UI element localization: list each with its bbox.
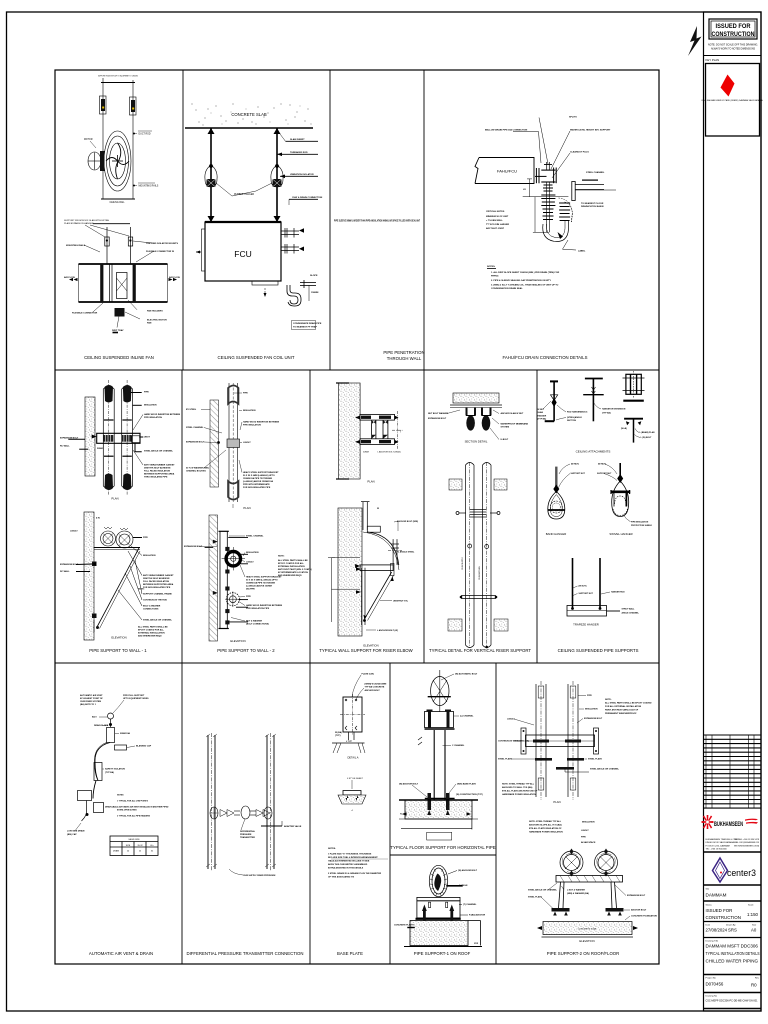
svg-text:L (BEAM) PLAN: L (BEAM) PLAN	[640, 431, 656, 434]
svg-text:(W) ANCHOR BOLT: (W) ANCHOR BOLT	[458, 869, 478, 872]
svg-text:(W+B): (W+B)	[621, 428, 627, 430]
svg-text:STEEL ANGLE OR CHANNEL: STEEL ANGLE OR CHANNEL	[590, 768, 620, 771]
svg-text:SUPPORT NUT: SUPPORT NUT	[597, 473, 612, 475]
svg-text:HANGER ROD: HANGER ROD	[611, 591, 625, 594]
svg-text:PIPE INSULATION: PIPE INSULATION	[631, 521, 649, 524]
svg-text:DETAIL A: DETAIL A	[347, 756, 358, 760]
svg-text:HANGER W EXPANSION: HANGER W EXPANSION	[602, 408, 626, 411]
svg-text:PIPE FULL SUPPORT: PIPE FULL SUPPORT	[123, 695, 145, 697]
svg-text:ISSUED FOR: ISSUED FOR	[716, 23, 751, 30]
svg-text:ROD HANGER(BOLT): ROD HANGER(BOLT)	[567, 411, 588, 414]
svg-text:CEILING RAIL: CEILING RAIL	[110, 201, 126, 204]
svg-text:TYPICAL FLOOR SUPPORT FOR HORI: TYPICAL FLOOR SUPPORT FOR HORIZONTAL PIP…	[390, 845, 495, 850]
svg-text:FAN: FAN	[147, 322, 152, 325]
svg-text:CSC-MEPF-DDC306-PC-DE-ME-CHW-S: CSC-MEPF-DDC306-PC-DE-ME-CHW-SN-001	[706, 999, 759, 1003]
svg-text:CEILING SUSPENDED PIPE SUPPORT: CEILING SUSPENDED PIPE SUPPORTS	[558, 648, 639, 653]
svg-text:PIPE SUPPORT-2 ON ROOF/FLOOR: PIPE SUPPORT-2 ON ROOF/FLOOR	[547, 951, 620, 956]
svg-text:PLAN: PLAN	[553, 800, 560, 804]
svg-text:FOR NON INSULATED PIPE: FOR NON INSULATED PIPE	[243, 486, 271, 489]
svg-text:SUPPORT NUT: SUPPORT NUT	[571, 473, 586, 475]
svg-text:PIPE INSULATION: PIPE INSULATION	[243, 424, 261, 427]
svg-text:W: W	[377, 508, 379, 510]
svg-text:PIPE SLEEVE 50MM LARGER THAN P: PIPE SLEEVE 50MM LARGER THAN PIPE+INSULA…	[334, 220, 420, 223]
svg-text:ANCHOR BOLT (W/E): ANCHOR BOLT (W/E)	[397, 520, 418, 523]
svg-text:BAND HANGER: BAND HANGER	[546, 532, 567, 536]
svg-text:L ANGLE STEEL: L ANGLE STEEL	[398, 551, 415, 554]
svg-text:SPLITS: SPLITS	[569, 117, 577, 119]
svg-text:NOTES:: NOTES:	[328, 848, 336, 850]
svg-text:PIPING: PIPING	[491, 276, 499, 278]
svg-text:ELECTRIC MOTOR: ELECTRIC MOTOR	[147, 320, 167, 322]
svg-text:DRIP TRAY: DRIP TRAY	[112, 329, 124, 332]
svg-text:STEEL PLATE: STEEL PLATE	[588, 758, 603, 761]
svg-text:CONDENSATE DRAIN PIPE: CONDENSATE DRAIN PIPE	[293, 322, 322, 325]
svg-text:PIPE INSULATION: PIPE INSULATION	[144, 416, 162, 419]
svg-text:32: 32	[151, 850, 154, 852]
svg-text:PLATE 6 (W): PLATE 6 (W)	[362, 673, 375, 676]
svg-text:LABEL: LABEL	[578, 250, 586, 253]
svg-text:SLAB: SLAB	[538, 411, 544, 414]
svg-text:TEL/FAX: +966 13 834 5678: TEL/FAX: +966 13 834 5678	[734, 838, 759, 841]
svg-text:EMAIL: INFO@BUKHAMSEEN.COM: EMAIL: INFO@BUKHAMSEEN.COM	[734, 841, 759, 844]
svg-text:1:150: 1:150	[747, 912, 759, 917]
svg-text:PLAN: PLAN	[243, 506, 250, 510]
svg-text:ALVAR SPACE: ALVAR SPACE	[581, 841, 596, 844]
svg-text:MOUNTING RAILS: MOUNTING RAILS	[139, 185, 159, 188]
svg-text:2 AUTOMATIC AIR VENT INSTALLED: 2 AUTOMATIC AIR VENT INSTALLED IN ANOTHE…	[117, 806, 169, 809]
svg-text:BTS ALL PLATE ANCHORS USE OF: BTS ALL PLATE ANCHORS USE OF	[502, 790, 538, 793]
svg-text:ELEVATION: ELEVATION	[111, 636, 126, 640]
svg-text:AUTOMATIC AIR VENT: AUTOMATIC AIR VENT	[80, 694, 103, 697]
svg-text:STRUT WALL: STRUT WALL	[622, 608, 636, 611]
svg-text:WATERPROOF MEMBRANE: WATERPROOF MEMBRANE	[501, 423, 529, 426]
svg-text:CEILING SUSPENDED INLINE FAN: CEILING SUSPENDED INLINE FAN	[84, 355, 154, 360]
svg-text:PIPE SUPPORT TO WALL - 2: PIPE SUPPORT TO WALL - 2	[217, 648, 275, 653]
svg-text:FLEXIBLE CONNECTOR: FLEXIBLE CONNECTOR	[72, 313, 98, 315]
svg-text:RC WALL: RC WALL	[60, 445, 70, 448]
svg-text:TO NEAREST FLOOR: TO NEAREST FLOOR	[581, 202, 604, 205]
svg-text:PIPE: PIPE	[246, 596, 251, 598]
svg-text:HEAVY STEEL SUPPORT BRACKET: HEAVY STEEL SUPPORT BRACKET	[243, 471, 279, 474]
svg-text:C CHANNEL: C CHANNEL	[452, 744, 465, 747]
svg-text:BUKHAMSEEN: BUKHAMSEEN	[714, 821, 743, 828]
svg-text:TEL: +966 13 8000000: TEL: +966 13 8000000	[706, 849, 728, 851]
svg-text:3. (MIN) & SLLY T (STEAM) CO: 3. (MIN) & SLLY T (STEAM) COL. TRAM SEAL…	[491, 284, 559, 287]
svg-text:50MM: 50MM	[363, 452, 369, 454]
svg-text:+1: +1	[351, 810, 354, 812]
svg-text:PIPE: PIPE	[587, 695, 592, 697]
svg-text:FAHU/FCU: FAHU/FCU	[497, 169, 517, 174]
svg-text:SAFETY ISOLATION: SAFETY ISOLATION	[105, 768, 125, 771]
svg-text:AND WHEREVER REQD: AND WHEREVER REQD	[138, 635, 162, 638]
svg-text:(TYP BA): (TYP BA)	[602, 412, 611, 415]
svg-text:THROUGH WALL: THROUGH WALL	[387, 356, 422, 361]
svg-text:CHW SUPPLY RISER PIPEWORK: CHW SUPPLY RISER PIPEWORK	[243, 875, 276, 877]
svg-text:EXTERNAL INSTALLATION: EXTERNAL INSTALLATION	[138, 632, 165, 635]
svg-text:(W/E) BASE PLATE: (W/E) BASE PLATE	[457, 783, 477, 786]
svg-text:EPOXY COATED FOR ALL: EPOXY COATED FOR ALL	[138, 629, 165, 632]
svg-text:(SHIM) W 25X25X3MM: (SHIM) W 25X25X3MM	[365, 684, 387, 686]
svg-text:EXPANSION BOLT: EXPANSION BOLT	[584, 717, 603, 720]
svg-text:AUTOMATIC AIR VENT & DRAIN: AUTOMATIC AIR VENT & DRAIN	[89, 951, 153, 956]
svg-text:FCU: FCU	[234, 249, 251, 259]
svg-text:BASE PLATE: BASE PLATE	[337, 951, 363, 956]
svg-text:RUBBER HANGER: RUBBER HANGER	[234, 193, 254, 196]
svg-text:SUPPORT CHANNEL FRAME: SUPPORT CHANNEL FRAME	[143, 593, 172, 596]
svg-text:150MM DIA PIPE 75X75X6MM: 150MM DIA PIPE 75X75X6MM	[243, 477, 272, 480]
svg-text:CMP RBD ISOLATOR MOUNTS: CMP RBD ISOLATOR MOUNTS	[146, 242, 179, 245]
svg-text:HANGER: HANGER	[538, 415, 547, 418]
svg-text:BY STEEL: BY STEEL	[186, 409, 197, 411]
svg-text:CHW RISER SYSTEM: CHW RISER SYSTEM	[80, 701, 101, 703]
svg-text:3MM THK SELF ADHESIVE: 3MM THK SELF ADHESIVE	[144, 467, 171, 470]
svg-text:SWIVEL HANGER: SWIVEL HANGER	[609, 532, 632, 536]
svg-text:CONCRETE SLAB: CONCRETE SLAB	[231, 112, 267, 117]
svg-text:4 IN: 4 IN	[96, 517, 100, 520]
svg-text:CHW & DRAIN CONNECTION: CHW & DRAIN CONNECTION	[292, 196, 323, 199]
svg-text:ADDS THIS CHEOMETRIC ASSEMBLED: ADDS THIS CHEOMETRIC ASSEMBLED	[328, 863, 368, 866]
svg-text:50 X 50 X 6MM (L/ANGLE) UPTO: 50 X 50 X 6MM (L/ANGLE) UPTO	[243, 474, 275, 477]
svg-text:INSULATION: INSULATION	[246, 551, 259, 554]
svg-text:SYSTEM: SYSTEM	[501, 427, 510, 429]
svg-text:(L ANGLE) ABOVE 150MM DIA: (L ANGLE) ABOVE 150MM DIA	[243, 480, 273, 483]
svg-text:PIPE SUPPORT TO WALL - 1: PIPE SUPPORT TO WALL - 1	[89, 648, 147, 653]
svg-text:Project No: Project No	[706, 977, 717, 980]
svg-text:PAINT ANTI RUST (MIN) COAT OF: PAINT ANTI RUST (MIN) COAT OF	[605, 709, 639, 712]
svg-text:AND WHEREVER REQD: AND WHEREVER REQD	[278, 574, 302, 577]
svg-text:NOTE: STEEL THREAD TYP ALL: NOTE: STEEL THREAD TYP ALL	[529, 820, 562, 823]
svg-text:TYP BA CONCRETE: TYP BA CONCRETE	[365, 686, 385, 689]
svg-text:UNISTRUT STL: UNISTRUT STL	[393, 601, 409, 603]
svg-text:Status: Status	[706, 904, 713, 907]
svg-text:STEEL CHANNEL: STEEL CHANNEL	[586, 171, 605, 174]
svg-text:CHANNEL BOLTING: CHANNEL BOLTING	[186, 470, 206, 473]
svg-text:NUT BOLT WASHER: NUT BOLT WASHER	[428, 412, 449, 415]
svg-text:PIPE: PIPE	[581, 837, 586, 839]
svg-text:ANCHOR BOLT: ANCHOR BOLT	[631, 909, 647, 912]
svg-text:NOTES: NOTES	[117, 795, 124, 797]
svg-text:BOLT & WASHER: BOLT & WASHER	[143, 605, 161, 608]
svg-text:THREADED ROD: THREADED ROD	[290, 151, 308, 154]
svg-text:NOTE:: NOTE:	[605, 699, 612, 701]
svg-text:DIFFERENTIAL PRESSURE TRANSMIT: DIFFERENTIAL PRESSURE TRANSMITTER CONNEC…	[187, 951, 304, 956]
svg-text:50MM: 50MM	[97, 448, 103, 450]
svg-text:(TYP BA): (TYP BA)	[105, 771, 114, 774]
svg-text:U-BOLT: U-BOLT	[581, 830, 589, 832]
svg-text:(W) ANCHOR BOLT: (W) ANCHOR BOLT	[399, 783, 419, 786]
svg-text:VALVE SIZE: VALVE SIZE	[128, 838, 140, 841]
svg-text:ALL STEEL PARTS SHALL BE EPOXY: ALL STEEL PARTS SHALL BE EPOXY COATED	[605, 702, 652, 705]
svg-text:NOTE: STEEL THREAD TYP ALL: NOTE: STEEL THREAD TYP ALL	[502, 783, 535, 786]
svg-text:NOTES:: NOTES:	[487, 266, 496, 268]
svg-text:Date: Date	[706, 924, 711, 927]
svg-text:PIPE: PIPE	[144, 392, 149, 394]
svg-text:H1: H1	[523, 189, 527, 191]
svg-text:ANCHOR BOLT: ANCHOR BOLT	[365, 689, 381, 692]
svg-text:STEEL PLATE: STEEL PLATE	[528, 896, 543, 899]
svg-text:SRS: SRS	[728, 928, 737, 933]
svg-text:MOUNTING RAILS: MOUNTING RAILS	[66, 244, 86, 247]
svg-text:Scale: Scale	[748, 905, 754, 907]
svg-text:ELEVATION: ELEVATION	[230, 639, 245, 643]
svg-text:BLANKED CAP: BLANKED CAP	[136, 745, 152, 748]
svg-text:CONSTRUCTION: CONSTRUCTION	[706, 915, 741, 920]
svg-text:INSULATION: INSULATION	[582, 821, 595, 824]
svg-text:SUPPORT FROM ROOF SLAB WITH EX: SUPPORT FROM ROOF SLAB WITH EXTRA	[64, 219, 109, 222]
svg-text:EXTRA OPEN DUTIES: EXTRA OPEN DUTIES	[117, 809, 137, 812]
svg-text:AT HIGHEST POINT OF: AT HIGHEST POINT OF	[80, 697, 104, 700]
svg-text:ANGLE CHANNEL: ANGLE CHANNEL	[622, 612, 640, 615]
svg-text:L ANCHOR BOLT (W): L ANCHOR BOLT (W)	[377, 629, 398, 632]
svg-text:150MM: 150MM	[311, 292, 318, 294]
svg-text:VIBRATION ISOLATOR: VIBRATION ISOLATOR	[290, 173, 314, 176]
svg-text:UNOT: UNOT	[144, 437, 151, 439]
svg-text:PLAN: PLAN	[111, 497, 118, 501]
svg-text:MINIMUM 50 OF UNIT: MINIMUM 50 OF UNIT	[486, 216, 509, 218]
svg-text:P.O.BOX 1234, DAMMAM: P.O.BOX 1234, DAMMAM	[706, 844, 730, 847]
svg-text:27/08/2024: 27/08/2024	[706, 928, 728, 933]
svg-text:EXTERNAL INSTALLATION: EXTERNAL INSTALLATION	[278, 565, 305, 568]
svg-text:Rev: Rev	[755, 978, 760, 980]
svg-text:PIPE WITH INTERMEDIATE: PIPE WITH INTERMEDIATE	[243, 483, 270, 486]
svg-text:B4-V: B4-V	[92, 716, 97, 719]
svg-text:LOW SIDE DRAIN: LOW SIDE DRAIN	[67, 830, 85, 833]
svg-text:NUT & WASHER: NUT & WASHER	[246, 620, 263, 623]
svg-text:STEEL ANGLE OR CHANNEL: STEEL ANGLE OR CHANNEL	[144, 450, 174, 453]
svg-text:40+: 40+	[150, 845, 154, 847]
svg-text:20: 20	[127, 850, 130, 852]
svg-text:(W) AUTOMATIC BOLT: (W) AUTOMATIC BOLT	[455, 673, 478, 676]
svg-text:RC WALL: RC WALL	[60, 570, 70, 573]
svg-text:TRAPEZE HANGER: TRAPEZE HANGER	[573, 623, 599, 627]
svg-text:(W NUT): (W NUT)	[598, 464, 606, 466]
svg-text:1 TYPICAL FOR ALL CHW POINTS: 1 TYPICAL FOR ALL CHW POINTS	[117, 800, 149, 803]
svg-text:HEAVY STEEL SUPPORT BRACKET: HEAVY STEEL SUPPORT BRACKET	[246, 576, 282, 579]
svg-text:XXX: XXX	[474, 943, 479, 945]
svg-text:PLAN: PLAN	[367, 480, 374, 484]
svg-text:+ T%OBS WELL: + T%OBS WELL	[486, 220, 503, 222]
svg-text:PERMANENT WEATHERPROOF: PERMANENT WEATHERPROOF	[605, 712, 637, 715]
svg-text:FULL FACED INSULATION: FULL FACED INSULATION	[143, 580, 170, 583]
svg-text:(BA) NOTE TO 1: (BA) NOTE TO 1	[80, 703, 97, 706]
svg-text:NOTE:: NOTE:	[278, 556, 285, 558]
svg-text:DIFFERENTIAL: DIFFERENTIAL	[240, 830, 256, 833]
svg-text:(TYP BA): (TYP BA)	[538, 417, 547, 420]
svg-text:CEILING SUSPENDED FAN COIL UNI: CEILING SUSPENDED FAN COIL UNIT	[218, 355, 295, 360]
svg-text:(L) CHANNEL: (L) CHANNEL	[460, 715, 474, 718]
svg-text:AT INTERMEDIATE LOCATION: AT INTERMEDIATE LOCATION	[278, 571, 308, 574]
svg-text:U-BOLT: U-BOLT	[507, 719, 515, 721]
svg-text:EXPANSION BOLT: EXPANSION BOLT	[186, 441, 205, 444]
svg-text:FAN HOLDERS: FAN HOLDERS	[147, 310, 163, 313]
svg-text:ELEVATION: ELEVATION	[579, 939, 594, 943]
svg-text:KING SALMAN ENERGY PARK (SPARK: KING SALMAN ENERGY PARK (SPARK) DAMMAM S…	[701, 99, 763, 102]
svg-text:(TYP): (TYP)	[335, 735, 341, 737]
svg-text:2 STEEL GRADE 50 & GREASE PLUS: 2 STEEL GRADE 50 & GREASE PLUS THE DIAME…	[328, 872, 382, 875]
svg-text:CONSTRUCTION: CONSTRUCTION	[712, 31, 755, 38]
svg-text:CLEANOUT PLUG: CLEANOUT PLUG	[570, 151, 589, 154]
svg-text:DUCT ROD: DUCT ROD	[139, 134, 151, 136]
svg-text:DRAIN/CATCH BASIN: DRAIN/CATCH BASIN	[581, 205, 604, 208]
svg-text:(MIN) & WASHER (BA): (MIN) & WASHER (BA)	[567, 892, 589, 895]
svg-text:EXTRA ASSISTED IN THIS DETAILS: EXTRA ASSISTED IN THIS DETAILS	[328, 867, 364, 870]
svg-text:OF THIS ASSOCIATED ITS: OF THIS ASSOCIATED ITS	[328, 876, 355, 879]
svg-text:UPTO EQUIPMENT SIDES: UPTO EQUIPMENT SIDES	[123, 698, 149, 700]
svg-text:KEY PLAN: KEY PLAN	[706, 58, 720, 62]
svg-text:W NUT: W NUT	[538, 409, 545, 411]
svg-text:ISSUED FOR: ISSUED FOR	[706, 908, 733, 913]
svg-text:SIZE: SIZE	[126, 845, 131, 847]
svg-text:150MM DIA PIPE 75X75X6MM: 150MM DIA PIPE 75X75X6MM	[246, 582, 275, 585]
svg-text:AIR TIGHT JOINT: AIR TIGHT JOINT	[486, 227, 505, 230]
svg-text:D070456: D070456	[706, 982, 724, 987]
svg-text:ALL STEEL PARTS SHALL BE: ALL STEEL PARTS SHALL BE	[138, 626, 168, 629]
svg-text:ADAPTER VALVE: ADAPTER VALVE	[284, 825, 302, 828]
svg-text:center3: center3	[727, 868, 756, 879]
svg-text:BETWEEN SUPPORTED AREA: BETWEEN SUPPORTED AREA	[144, 473, 175, 476]
svg-text:CRITICAL NOTES: CRITICAL NOTES	[486, 210, 505, 213]
svg-text:EXPANSION BOLT: EXPANSION BOLT	[627, 894, 646, 897]
svg-text:ALL STEEL PARTS SHALL BE: ALL STEEL PARTS SHALL BE	[278, 559, 308, 562]
svg-text:20-32: 20-32	[137, 845, 143, 847]
svg-text:SLOPE: SLOPE	[310, 275, 318, 277]
svg-text:WATER LEVEL HEIGHT 80% SUPPORT: WATER LEVEL HEIGHT 80% SUPPORT	[570, 129, 611, 132]
svg-text:(STEEL)ANGLE: (STEEL)ANGLE	[567, 416, 582, 419]
svg-text:PIPE: PIPE	[143, 537, 148, 539]
svg-text:INSULATION: INSULATION	[243, 409, 256, 412]
svg-text:Drawing Title: Drawing Title	[706, 940, 719, 943]
svg-text:A0: A0	[751, 928, 757, 933]
svg-text:L (W) BOLT: L (W) BOLT	[641, 437, 653, 439]
svg-text:2. PIPE & SLEEVE SEALING GAP: 2. PIPE & SLEEVE SEALING GAP PENETRATION…	[491, 279, 552, 282]
svg-text:ANCHORS SLOPE ALL IT IS (BA): ANCHORS SLOPE ALL IT IS (BA)	[529, 824, 562, 827]
svg-text:(L ANGLE) ABOVE 150MM: (L ANGLE) ABOVE 150MM	[246, 585, 272, 588]
svg-text:STEEL PLATE: STEEL PLATE	[498, 758, 513, 761]
svg-text:CONTINUOUS THK ROD: CONTINUOUS THK ROD	[143, 600, 168, 602]
svg-text:AIR FLOW: AIR FLOW	[64, 276, 76, 279]
svg-text:CONCRETE PLINTH: CONCRETE PLINTH	[394, 925, 414, 927]
svg-text:WEB: WWW.BUKHAMSEEN.COM.SA: WEB: WWW.BUKHAMSEEN.COM.SA	[734, 844, 760, 847]
svg-text:DRAIN: DRAIN	[113, 849, 120, 852]
svg-text:EXPANSION BOLT: EXPANSION BOLT	[428, 417, 447, 420]
svg-text:L ANCHOR BOLT (W&B): L ANCHOR BOLT (W&B)	[378, 451, 401, 454]
svg-text:U-BOLT: U-BOLT	[246, 562, 254, 564]
svg-text:3MM THK SELF ADHESIVE: 3MM THK SELF ADHESIVE	[143, 577, 170, 580]
svg-text:PLAIN EXPANSION HANGER: PLAIN EXPANSION HANGER	[64, 222, 94, 225]
svg-text:R (BA) ANCHOR: R (BA) ANCHOR	[469, 914, 486, 917]
svg-text:STEEL CHANNEL: STEEL CHANNEL	[186, 426, 204, 429]
svg-text:CONNECTIONS: CONNECTIONS	[143, 609, 159, 611]
svg-text:50 X 50 X 6MM (L ANGLE) UPTO: 50 X 50 X 6MM (L ANGLE) UPTO	[246, 579, 278, 582]
svg-text:HARD WOOD INSERTION BETWEEN: HARD WOOD INSERTION BETWEEN	[243, 421, 280, 424]
svg-text:NOTE: DO NOT SCALE OFF THIS DR: NOTE: DO NOT SCALE OFF THIS DRAWING.	[708, 43, 758, 47]
svg-text:FOR NON INSULATED PIPE: FOR NON INSULATED PIPE	[143, 586, 171, 589]
svg-text:(BM) CAP: (BM) CAP	[67, 833, 77, 836]
svg-text:HARDWARE POWER INSULATION: HARDWARE POWER INSULATION	[502, 793, 536, 796]
svg-text:PIPE PENETRATION: PIPE PENETRATION	[383, 350, 424, 355]
svg-text:}: }	[400, 430, 401, 433]
svg-text:ANTI RUST PAINT (MIN. 2 COATS): ANTI RUST PAINT (MIN. 2 COATS)	[278, 568, 312, 571]
svg-text:20MM DIA: 20MM DIA	[120, 732, 130, 735]
svg-text:TYPICAL INSTALLATION DETAILS: TYPICAL INSTALLATION DETAILS	[706, 951, 760, 956]
svg-text:U-BOLT: U-BOLT	[243, 442, 251, 444]
svg-text:ELEVATION: ELEVATION	[363, 644, 378, 648]
svg-text:HARD WOOD INSERTION BETWEEN: HARD WOOD INSERTION BETWEEN	[144, 413, 181, 416]
svg-text:TO NEAREST FF TRAP: TO NEAREST FF TRAP	[293, 326, 317, 329]
svg-text:HARD WOOD INSERTION BETWEEN: HARD WOOD INSERTION BETWEEN	[246, 604, 283, 607]
svg-text:INCLUDE SIZE TUBL 4 INTERIOR A: INCLUDE SIZE TUBL 4 INTERIOR ARRANGEMENT	[328, 856, 378, 859]
svg-text:1 PLATE SIZE "S" THICKNESS. TH: 1 PLATE SIZE "S" THICKNESS. THICKNESS	[328, 853, 372, 856]
svg-text:ALWAYS WORK TO NOTED DIMENSION: ALWAYS WORK TO NOTED DIMENSIONS	[711, 47, 755, 51]
svg-text:CONCRETE SLAB: CONCRETE SLAB	[578, 928, 597, 931]
svg-text:FULL FACED INSULATION: FULL FACED INSULATION	[144, 470, 171, 473]
svg-text:MOTOR: MOTOR	[84, 139, 93, 141]
svg-text:SECTION DETAIL: SECTION DETAIL	[465, 440, 488, 444]
svg-text:TRANSMITTER: TRANSMITTER	[240, 836, 255, 839]
svg-text:(W NUT): (W NUT)	[571, 464, 579, 466]
svg-text:FOR ALL EXTERNAL INSTALLATION: FOR ALL EXTERNAL INSTALLATION	[605, 705, 642, 708]
svg-text:SUPPORT RODS EXTN UP TO EQUIPM: SUPPORT RODS EXTN UP TO EQUIPMENT TO CEI…	[98, 76, 138, 78]
svg-text:INSULATION: INSULATION	[585, 708, 598, 711]
svg-text:1. ALL DRIP SLOPE SHEET 100/: 1. ALL DRIP SLOPE SHEET 100/200 (MIN.) P…	[491, 271, 560, 274]
svg-text:TYPICAL DETAIL FOR VERTICAL RI: TYPICAL DETAIL FOR VERTICAL RISER SUPPOR…	[429, 648, 531, 653]
svg-text:PIPE: PIPE	[243, 393, 248, 395]
svg-text:L TYP: L TYP	[346, 741, 352, 743]
svg-text:W (BA): W (BA)	[335, 731, 342, 734]
svg-text:DAMMAM MSFT DDC306: DAMMAM MSFT DDC306	[706, 944, 759, 949]
svg-text:L NUT & WASHER: L NUT & WASHER	[567, 889, 585, 892]
svg-text:Site: Site	[706, 888, 711, 891]
svg-text:ANCHORS TO WALL IT IS (BA): ANCHORS TO WALL IT IS (BA)	[502, 786, 533, 789]
svg-text:PRESSURE: PRESSURE	[240, 834, 252, 836]
svg-text:CEILING ATTACHMENTS: CEILING ATTACHMENTS	[576, 450, 611, 454]
svg-text:SUPPORT NUT: SUPPORT NUT	[579, 593, 594, 595]
svg-text:PROTECTION SHIELD: PROTECTION SHIELD	[631, 525, 653, 527]
svg-text:T*T ECS DIM LARGER: T*T ECS DIM LARGER	[486, 223, 510, 226]
svg-text:CHILLED WATER PIPING: CHILLED WATER PIPING	[706, 959, 759, 964]
svg-text:SLAB INSERT: SLAB INSERT	[290, 138, 305, 141]
svg-text:CHW RETURN: CHW RETURN	[479, 566, 481, 580]
svg-text:STEEL CHANNEL: STEEL CHANNEL	[246, 535, 264, 538]
svg-text:PIPE INSULATION PIPE: PIPE INSULATION PIPE	[246, 607, 270, 610]
svg-text:FAHU/FCU DRAIN CONNECTION DETA: FAHU/FCU DRAIN CONNECTION DETAILS	[503, 355, 588, 360]
svg-text:EPOXY COATED FOR ALL: EPOXY COATED FOR ALL	[278, 562, 305, 565]
svg-text:BETWEEN SUPPORTED AREA: BETWEEN SUPPORTED AREA	[143, 583, 174, 586]
svg-text:ANTI VIBRA RUBBER GASKET: ANTI VIBRA RUBBER GASKET	[143, 574, 174, 577]
svg-text:Drawn By: Drawn By	[726, 924, 736, 927]
svg-text:Drawing No: Drawing No	[706, 994, 718, 997]
svg-text:R0: R0	[751, 983, 757, 988]
svg-text:STEEL ANGLE OR CHANNEL: STEEL ANGLE OR CHANNEL	[528, 889, 558, 892]
svg-text:STEEL ANGLE OR CHANNEL: STEEL ANGLE OR CHANNEL	[143, 619, 173, 622]
svg-text:PIPE SUPPORT-1 ON ROOF: PIPE SUPPORT-1 ON ROOF	[414, 951, 471, 956]
svg-text:3 TYPICAL FOR ALL PIPE HEADERS: 3 TYPICAL FOR ALL PIPE HEADERS	[117, 815, 151, 818]
svg-text:(W) CONSTRUCTION (TYP): (W) CONSTRUCTION (TYP)	[456, 794, 483, 796]
svg-text:CONDENSATION DRAIN SEAL: CONDENSATION DRAIN SEAL	[491, 287, 523, 290]
svg-text:SECTION: SECTION	[567, 420, 576, 422]
svg-text:DAMMAM: DAMMAM	[706, 893, 727, 898]
svg-text:KINGDOM OF SAUDI ARABIA: KINGDOM OF SAUDI ARABIA	[706, 841, 735, 844]
svg-text:(BOLT CONNECTIONS): (BOLT CONNECTIONS)	[246, 624, 269, 626]
svg-text:TYPICAL WALL SUPPORT FOR RISER: TYPICAL WALL SUPPORT FOR RISER ELBOW	[319, 648, 413, 653]
svg-text:FLEXIBLE CONNECTOR W: FLEXIBLE CONNECTOR W	[146, 251, 175, 253]
svg-text:ITALIA AS INTERESTED INCLUDE I: ITALIA AS INTERESTED INCLUDE IT SIDE	[328, 860, 370, 863]
svg-text:ANCHOR SLAB W NUT: ANCHOR SLAB W NUT	[501, 412, 524, 415]
svg-text:CHW SUPPLY: CHW SUPPLY	[462, 556, 464, 570]
svg-text:BELLOW DRAIN PIPE DIA CONNECTI: BELLOW DRAIN PIPE DIA CONNECTION	[485, 129, 528, 132]
svg-text:ANTI VIBRA RUBBER GASKET: ANTI VIBRA RUBBER GASKET	[144, 464, 175, 467]
svg-text:4 STYLE SHEET: 4 STYLE SHEET	[347, 778, 364, 780]
